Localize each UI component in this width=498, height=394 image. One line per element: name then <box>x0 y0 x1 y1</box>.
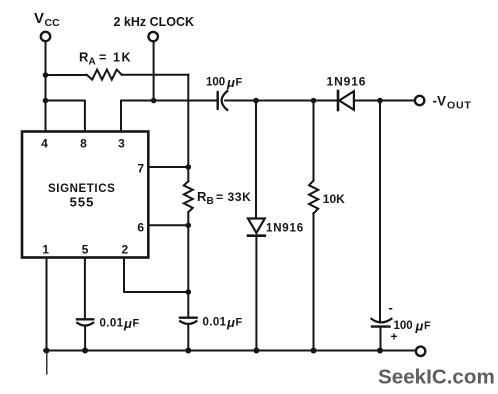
wire RA drop to pin7 <box>187 75 189 167</box>
svg-text:OUT: OUT <box>447 100 472 112</box>
capacitor C2 0.01uF <box>77 319 93 325</box>
wire 10K to ground <box>313 213 315 350</box>
wire output rail right <box>354 100 415 102</box>
capacitor C1 100uF coupling <box>218 91 228 110</box>
label 100uF C4 <box>394 319 432 334</box>
node clamp diode top <box>253 98 259 104</box>
svg-text:μ: μ <box>226 315 235 330</box>
svg-text:R: R <box>79 50 89 65</box>
node pin5 ground junction <box>82 348 88 354</box>
node pin7 junction <box>186 164 192 170</box>
node clamp ground junction <box>253 348 259 354</box>
svg-text:6: 6 <box>137 221 144 235</box>
resistor R1 10K <box>309 181 318 214</box>
wire ground bus <box>44 350 416 352</box>
svg-text:F: F <box>236 77 243 89</box>
svg-text:3: 3 <box>118 137 125 151</box>
svg-text:100: 100 <box>394 320 413 332</box>
terminal ground right <box>416 347 425 356</box>
diode D2 1N916 clamp <box>248 219 265 236</box>
wire 10K drop <box>313 101 315 181</box>
wire pin 1 <box>46 258 48 351</box>
svg-text:0.01: 0.01 <box>100 318 124 330</box>
svg-text:μ: μ <box>123 316 132 331</box>
wire C4 to ground <box>380 327 382 351</box>
label 100uF C1 <box>206 75 243 90</box>
node pin1 ground junction <box>44 348 50 354</box>
label 2 kHz CLOCK <box>114 15 195 29</box>
wire Vcc to pin 8 <box>46 101 85 132</box>
resistor RB <box>184 167 193 212</box>
ground stub <box>46 351 48 375</box>
svg-text:F: F <box>424 320 431 332</box>
svg-text:100: 100 <box>206 77 225 89</box>
resistor RA <box>87 70 122 80</box>
wire pin 7 <box>148 166 188 168</box>
svg-text:V: V <box>34 10 44 27</box>
svg-text:F: F <box>236 317 243 329</box>
wire pin 2 <box>124 258 188 293</box>
wire pin 5 <box>84 258 86 320</box>
svg-text:7: 7 <box>137 161 144 175</box>
capacitor C4 100uF filter <box>371 319 391 327</box>
wire output rail left <box>121 100 218 102</box>
svg-text:SIGNETICS: SIGNETICS <box>48 183 115 195</box>
node Vcc-pin8 junction <box>43 98 49 104</box>
capacitor C3 0.01uF <box>180 318 197 324</box>
wire Vcc vertical <box>45 41 47 131</box>
svg-text:10K: 10K <box>323 192 345 206</box>
op-amp U1 Signetics 555 box <box>22 132 148 258</box>
svg-text:555: 555 <box>70 195 95 210</box>
label 0.01uF C3 <box>203 315 243 330</box>
svg-text:= 1K: = 1K <box>99 51 132 65</box>
svg-text:2: 2 <box>122 243 129 257</box>
terminal 2kHz clock <box>149 32 158 41</box>
terminal -Vout <box>415 96 424 105</box>
wire RA to discharge drop <box>122 74 189 76</box>
label SIGNETICS 555 <box>48 183 115 210</box>
svg-text:R: R <box>197 189 207 204</box>
wire C3 to ground <box>187 325 189 351</box>
label 10K <box>323 192 345 206</box>
wire Vcc to RA <box>46 74 87 76</box>
node filter cap top <box>377 98 383 104</box>
diode D1 1N916 series <box>338 91 354 110</box>
svg-text:μ: μ <box>226 75 235 90</box>
label RA = 1K <box>79 50 132 68</box>
svg-text:SeekIC.com: SeekIC.com <box>378 366 495 389</box>
node pin6 junction <box>186 223 192 229</box>
svg-text:2 kHz CLOCK: 2 kHz CLOCK <box>114 15 195 29</box>
label 1N916 D1 <box>327 75 367 89</box>
wire pin3 riser <box>120 101 122 132</box>
svg-text:0.01: 0.01 <box>203 317 227 329</box>
wire RB to pin2 net <box>187 212 189 317</box>
wire C2 to ground <box>84 326 86 350</box>
svg-text:= 33K: = 33K <box>216 190 251 204</box>
wire clock vertical <box>153 41 155 100</box>
label RB = 33K <box>197 189 251 207</box>
svg-text:1N916: 1N916 <box>327 75 367 89</box>
label 1N916 D2 <box>266 223 304 235</box>
svg-text:B: B <box>207 196 214 207</box>
label Vcc <box>34 10 60 29</box>
wire pin 6 <box>148 224 188 226</box>
label 0.01uF C2 <box>100 316 140 331</box>
node 10K ground junction <box>311 348 317 354</box>
wire clamp diode to ground <box>255 236 257 351</box>
node C3 ground junction <box>185 348 191 354</box>
label -Vout <box>433 94 472 112</box>
wire clamp diode drop <box>255 101 257 219</box>
svg-text:A: A <box>89 57 96 68</box>
wire filter cap drop <box>379 101 381 323</box>
node C4 ground junction <box>377 348 383 354</box>
node clock junction <box>151 98 157 104</box>
svg-text:-: - <box>389 300 393 315</box>
svg-text:CC: CC <box>45 17 61 29</box>
node Vcc-RA junction <box>43 72 49 78</box>
svg-text:μ: μ <box>415 319 424 334</box>
svg-text:8: 8 <box>80 137 87 151</box>
terminal Vcc <box>41 32 50 41</box>
svg-text:5: 5 <box>82 243 89 257</box>
svg-text:F: F <box>133 318 140 330</box>
wire output rail middle <box>225 100 337 102</box>
node pin2 junction <box>186 289 192 295</box>
svg-text:1N916: 1N916 <box>266 223 304 235</box>
svg-text:4: 4 <box>41 137 48 151</box>
svg-text:-V: -V <box>433 94 447 109</box>
node 10K top <box>311 98 317 104</box>
svg-text:1: 1 <box>42 243 49 257</box>
